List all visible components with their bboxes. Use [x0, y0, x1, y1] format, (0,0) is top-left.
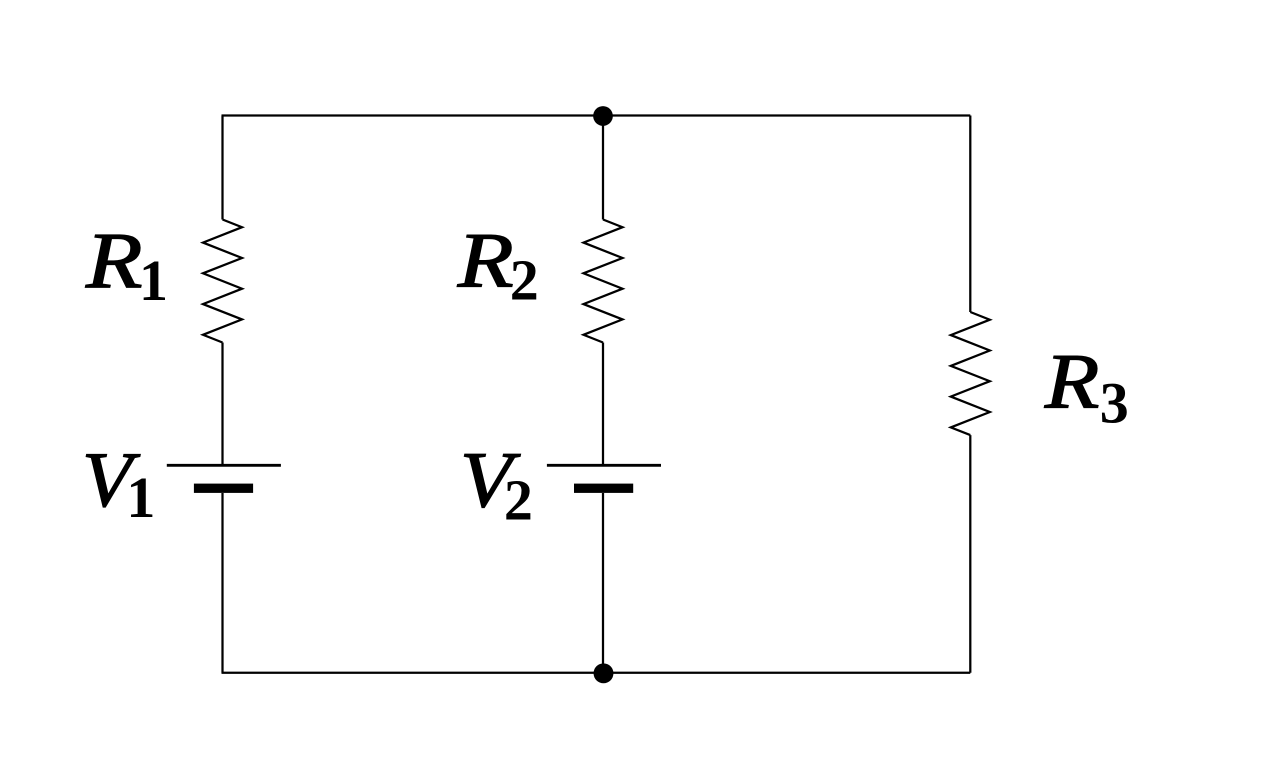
svg-text:3: 3	[1100, 370, 1129, 435]
svg-text:1: 1	[126, 465, 155, 530]
svg-text:2: 2	[510, 247, 539, 312]
svg-text:R: R	[85, 217, 143, 305]
svg-text:2: 2	[504, 467, 533, 532]
svg-text:1: 1	[139, 248, 168, 313]
svg-text:R: R	[1044, 339, 1100, 426]
svg-text:R: R	[457, 218, 514, 304]
